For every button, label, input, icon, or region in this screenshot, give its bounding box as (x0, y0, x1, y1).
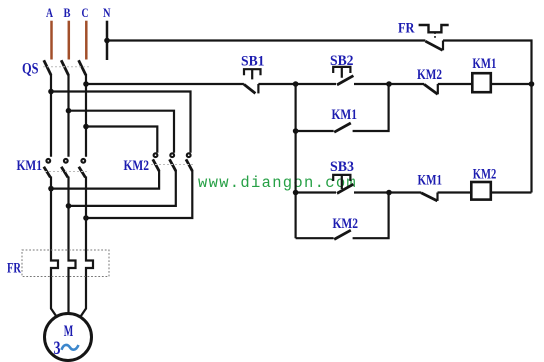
wire KM1NC to coil KM2 (438, 191, 472, 193)
node merge phase A (48, 186, 54, 192)
contactor KM2 pole2 blade (170, 159, 176, 171)
motor M circle (45, 314, 92, 361)
wire phase B KM1 output down through FR heater (69, 177, 76, 315)
wire hold branch left vertical (295, 84, 297, 238)
wire KM2 pole2 output and merge to phase B (69, 170, 176, 206)
wire KM2 pole1 output and merge to phase A (51, 170, 159, 189)
svg-text:N: N (103, 5, 111, 20)
wire coil KM2 to right bus (491, 191, 532, 193)
svg-text:3: 3 (54, 338, 61, 359)
node bridge tap phase C (83, 124, 89, 130)
contactor KM2 pole3 blade (186, 159, 192, 171)
svg-text:SB1: SB1 (241, 54, 265, 70)
wire phase B below QS (67, 74, 69, 157)
pushbutton SB1 cap (244, 69, 261, 79)
aux contact KM2 NO blade (334, 230, 351, 239)
wire coil KM1 to right bus (491, 83, 532, 85)
node row1 right junction (386, 81, 392, 87)
contactor KM2 pole3 terminal circle (187, 153, 191, 157)
svg-text:FR: FR (7, 261, 21, 277)
thermal contact FR NC blade (425, 41, 442, 50)
svg-text:KM1: KM1 (332, 107, 358, 123)
control row2 wire left (296, 191, 336, 193)
node row1 left junction (293, 81, 299, 87)
interlock KM1 NC right terminal (436, 193, 438, 201)
feeder wire phase C (red) (85, 21, 88, 60)
svg-text:KM1: KM1 (472, 56, 496, 72)
control row1 wire: phase C tap to SB1 (86, 83, 244, 85)
thermal relay FR dashed box (22, 250, 109, 277)
contactor KM1 pole3 terminal circle (81, 159, 85, 163)
wire SB1 to SB2 (258, 83, 336, 85)
pushbutton SB1 right terminal (257, 84, 259, 93)
node bridge tap phase B (66, 108, 72, 114)
contactor KM1 pole1 blade (44, 167, 51, 178)
wire KM2 pole3 output and merge to phase C (86, 170, 192, 218)
wire bridge B to KM2 pole2 (69, 111, 175, 153)
svg-text:KM1: KM1 (418, 173, 443, 189)
node right bus row1 (529, 81, 535, 87)
switch QS blade pole B (61, 60, 68, 75)
node N junction (104, 38, 110, 44)
contactor KM2 pole1 terminal circle (154, 153, 158, 157)
svg-text:QS: QS (22, 60, 39, 77)
wire hold branch2 row right (353, 193, 389, 239)
coil KM1 box (472, 73, 491, 92)
contactor KM2 pole1 blade (153, 159, 159, 171)
wire N vertical (106, 21, 109, 60)
feeder wire phase B (red) (68, 21, 71, 60)
contactor KM1 pole3 blade (79, 167, 86, 178)
svg-text:B: B (64, 5, 71, 20)
pushbutton SB2 NO blade (337, 76, 353, 85)
wire hold branch row (296, 130, 334, 132)
node row2 right junction (386, 190, 392, 196)
svg-text:KM2: KM2 (333, 216, 359, 232)
switch QS linkage (dashed) (43, 66, 89, 68)
interlock KM1 NC blade (421, 193, 437, 201)
wire phase C KM1 output down through FR heater (80, 177, 93, 318)
wire bridge A to KM2 pole3 (51, 92, 191, 153)
switch QS blade pole A (44, 60, 51, 75)
svg-text:FR: FR (398, 21, 415, 37)
wire SB3 to KM1 NC (354, 191, 421, 193)
svg-text:KM2: KM2 (417, 67, 442, 83)
switch QS blade pole C (79, 60, 86, 75)
wire top control line N to FR (107, 39, 425, 41)
svg-text:C: C (82, 5, 89, 20)
svg-text:KM2: KM2 (473, 167, 497, 183)
coil KM2 box (471, 182, 491, 200)
thermal contact FR marker (419, 25, 449, 32)
contactor KM2 pole2 terminal circle (170, 153, 174, 157)
wire hold branch row right (353, 84, 389, 131)
node merge phase C (83, 215, 89, 221)
wire phase C below QS (85, 74, 87, 157)
node bridge tap phase A (48, 89, 54, 95)
thermal contact FR marker tick (dotted) (434, 32, 436, 40)
wire phase A below QS (50, 74, 52, 157)
wire phase A KM1 output down through FR heater (51, 177, 58, 318)
wire SB2 to KM2 NC (354, 83, 424, 85)
pushbutton SB2 cap (333, 67, 350, 78)
feeder wire phase A (red) (50, 21, 53, 60)
svg-text:KM2: KM2 (124, 158, 150, 174)
contactor KM2 linkage (dashed) (151, 164, 194, 166)
pushbutton SB3 NO blade (337, 184, 353, 193)
thermal contact FR right terminal (442, 41, 444, 51)
node hold branch tap (293, 128, 299, 134)
interlock KM2 NC right terminal (437, 84, 439, 94)
contactor KM1 pole1 terminal circle (46, 159, 50, 163)
svg-text:SB3: SB3 (330, 159, 354, 175)
contactor KM1 pole2 blade (61, 167, 68, 178)
pushbutton SB3 cap (333, 175, 350, 189)
contactor KM1 linkage (dashed) (45, 171, 88, 173)
node merge phase B (66, 203, 72, 209)
wire hold branch2 row (296, 237, 334, 239)
svg-text:KM1: KM1 (17, 158, 43, 174)
wire FR to right bus corner (443, 41, 532, 193)
wire bridge C to KM2 pole1 (86, 127, 157, 153)
aux contact KM1 NO blade (334, 123, 351, 132)
wire KM2NC to coil KM1 (438, 83, 473, 85)
motor label tilde (62, 345, 79, 350)
pushbutton SB1 NC blade (244, 84, 256, 93)
contactor KM1 pole2 terminal circle (64, 159, 68, 163)
node row2 left junction (293, 190, 299, 196)
svg-text:A: A (46, 5, 53, 20)
interlock KM2 NC blade (424, 84, 438, 94)
svg-text:M: M (64, 323, 74, 340)
node control tap on phase C (83, 81, 89, 87)
